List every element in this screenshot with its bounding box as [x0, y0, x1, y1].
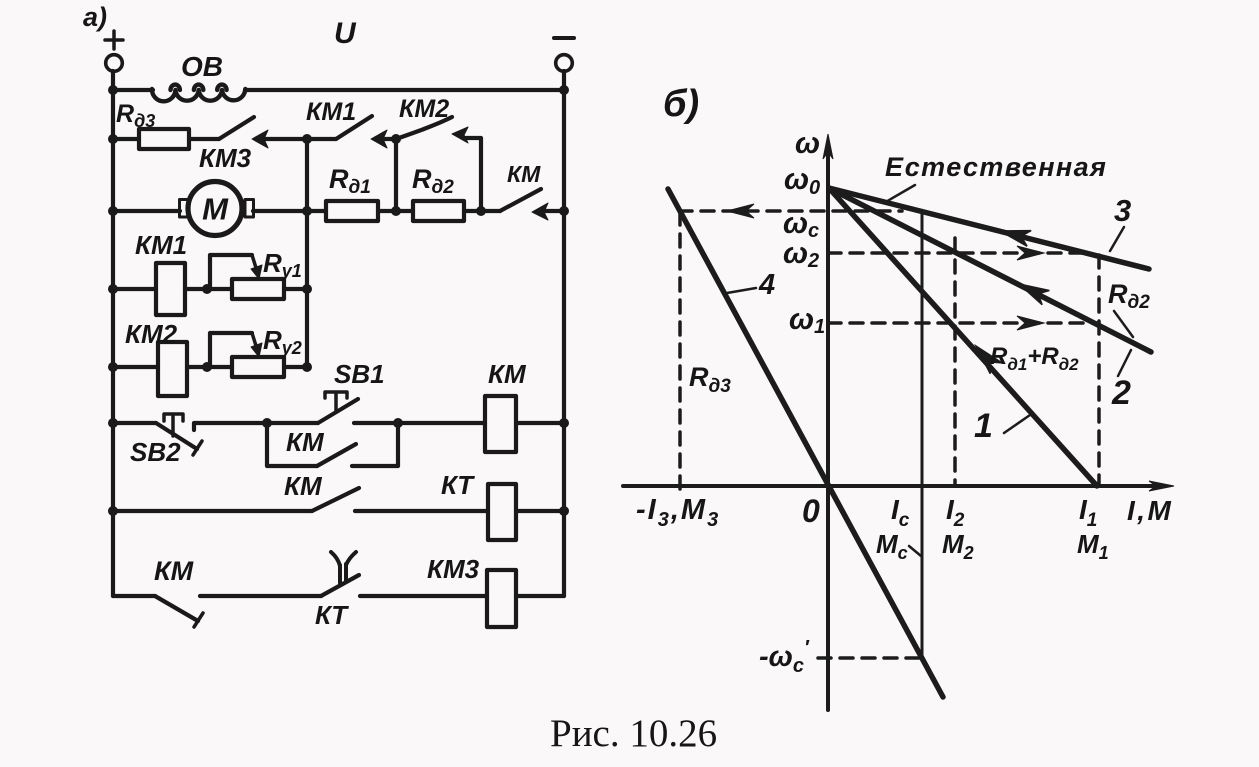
wire Rд2 to KM	[464, 209, 500, 213]
wire KM3 to node	[262, 137, 336, 141]
svg-text:М1: М1	[1077, 529, 1109, 563]
terminal circle right	[556, 55, 573, 72]
svg-text:КМ: КМ	[284, 471, 323, 501]
wire Rд3 to KM3	[189, 137, 219, 141]
wire row8 left	[113, 594, 155, 598]
wire coil KM to rail	[516, 421, 564, 425]
contact KT delay symbol	[331, 552, 356, 583]
characteristic line 2	[829, 188, 1151, 352]
resistor Ry1	[232, 279, 284, 299]
resistor Rд1	[326, 201, 378, 221]
wire KM to right rail	[545, 209, 564, 213]
right rail junction dots	[559, 85, 569, 216]
pushbutton SB2 actuator	[164, 414, 183, 436]
KM self-hold branch wire	[267, 423, 317, 466]
rheostat Ry1 tap arrow	[252, 255, 257, 271]
resistor Ry2	[232, 357, 284, 377]
contact KM blade (self-hold)	[317, 444, 356, 466]
node junction x481 motor row	[476, 206, 486, 216]
coil KM3	[487, 570, 516, 627]
svg-text:Rд3: Rд3	[116, 100, 155, 131]
vertical wire x307 (rows 2-5)	[305, 139, 309, 367]
wire coil KT to rail	[516, 509, 564, 513]
svg-text:3: 3	[1114, 193, 1131, 228]
characteristic line 4 (reverse braking)	[668, 189, 943, 697]
node junction x207 row5	[202, 362, 212, 372]
svg-text:ω0: ω0	[784, 163, 820, 199]
pointer from label Rд2	[1114, 311, 1133, 337]
I,M axis arrowhead	[1149, 481, 1174, 491]
rheostat Ry1 tap arrowhead	[251, 265, 262, 279]
arrow on omega-2 dashes (right)	[1017, 246, 1044, 260]
node junction x396 motor row	[391, 206, 401, 216]
node junction x307 row2	[302, 134, 312, 144]
svg-text:Rд1+Rд2: Rд1+Rд2	[990, 343, 1079, 374]
contact KM2 arrowhead	[452, 127, 468, 143]
svg-text:I2: I2	[946, 494, 965, 531]
svg-text:I,М: I,М	[1127, 495, 1173, 526]
pointer from label Mc	[909, 546, 921, 556]
wire row7 left	[113, 509, 312, 513]
svg-text:КТ: КТ	[315, 600, 349, 630]
omega axis arrowhead	[823, 134, 833, 159]
svg-text:КМ: КМ	[286, 427, 325, 457]
svg-text:ω: ω	[795, 127, 820, 160]
svg-text:КМ2: КМ2	[399, 95, 449, 123]
wire coil KM1 to Ry1	[185, 287, 232, 291]
contact KM1 arrowhead	[371, 130, 387, 148]
svg-text:М: М	[202, 192, 229, 227]
wire KM1 to node	[382, 137, 396, 141]
node junction rail row6	[559, 418, 569, 428]
pointer from label 1	[1004, 415, 1030, 433]
arrow on line 2	[1019, 284, 1049, 305]
svg-text:КМ: КМ	[488, 359, 527, 389]
contact KM blade (motor row)	[500, 189, 541, 211]
svg-text:ω2: ω2	[783, 237, 819, 272]
characteristic line 3 (natural)	[829, 188, 1149, 269]
terminal + (positive supply)	[105, 31, 123, 49]
svg-text:КМ2: КМ2	[125, 319, 178, 349]
svg-text:КМ1: КМ1	[135, 230, 187, 260]
svg-text:Rу2: Rу2	[263, 325, 302, 358]
wire row6 left	[113, 421, 156, 425]
node junction x307 motor row	[302, 206, 312, 216]
contact KM2 blade	[396, 117, 452, 139]
I,M axis (horizontal)	[623, 484, 1158, 488]
left rail junction dots	[108, 85, 118, 516]
rheostat Ry2 tap arrow	[252, 333, 257, 349]
dashed vertical I2	[953, 238, 957, 486]
coil KM1	[156, 263, 185, 315]
KM self-hold branch wire right	[352, 423, 398, 466]
pointer from label 3	[1110, 227, 1124, 251]
dashed level omega-c	[679, 209, 902, 213]
node junction x207 row4	[202, 284, 212, 294]
arrow on omega-c dashes (left)	[727, 204, 754, 218]
rheostat Ry2 bypass loop	[210, 333, 252, 367]
svg-text:-ωс′: -ωс′	[759, 637, 810, 677]
svg-text:Rд2: Rд2	[412, 164, 454, 198]
pointer to natural line	[884, 185, 915, 203]
wire coil KM3 to rail	[516, 594, 564, 598]
pushbutton SB2 blade	[156, 423, 197, 449]
contact KM3 arrowhead	[252, 130, 268, 148]
svg-text:ω1: ω1	[789, 303, 825, 338]
svg-text:КМ: КМ	[154, 556, 194, 586]
motor M left brush	[180, 200, 189, 218]
wire Ry1 to rail	[284, 287, 307, 291]
contact KM blade tick (row8)	[194, 613, 203, 627]
coil KT	[488, 484, 516, 540]
rheostat Ry1 bypass loop	[210, 255, 252, 289]
motor M armature circle	[188, 182, 242, 236]
dashed vertical -I3	[678, 212, 682, 490]
svg-text:ОВ: ОВ	[181, 51, 223, 82]
dashed level minus omega-c'	[818, 656, 922, 660]
pushbutton SB1 actuator	[325, 392, 347, 412]
wire KM to coil KT	[355, 509, 488, 513]
wire KM2 corner down	[465, 138, 481, 211]
vertical wire x396 (row2 to motor row)	[394, 139, 398, 211]
arrow on omega-1 dashes (right)	[1017, 316, 1044, 330]
svg-text:Rд1: Rд1	[329, 164, 371, 198]
node junction x398 row6	[393, 418, 403, 428]
wire row2 left	[113, 137, 139, 141]
svg-text:SB2: SB2	[130, 437, 181, 467]
contact KM3 blade	[219, 117, 254, 139]
wire KT to coil KM3	[360, 594, 487, 598]
dashed level omega-2	[828, 251, 1089, 255]
node junction x307 row4	[302, 284, 312, 294]
svg-text:КМ1: КМ1	[306, 98, 356, 126]
contact KM1 blade	[336, 116, 372, 139]
svg-text:U: U	[334, 17, 357, 50]
contact KM blade (row8)	[155, 596, 198, 621]
coil KM2	[158, 342, 187, 396]
right rail wire	[562, 71, 566, 596]
field winding OB	[152, 85, 245, 102]
svg-text:Rд2: Rд2	[1108, 279, 1150, 313]
wire motor to node	[253, 209, 326, 213]
wire row4 left	[113, 287, 156, 291]
arrow on line 1	[976, 346, 1002, 374]
svg-text:КМ3: КМ3	[427, 554, 480, 584]
resistor Rд2	[413, 201, 464, 221]
svg-text:КТ: КТ	[441, 470, 475, 500]
wire KM to KT contact	[200, 594, 321, 598]
svg-text:4: 4	[758, 269, 775, 301]
svg-text:Рис. 10.26: Рис. 10.26	[550, 712, 717, 755]
terminal circle left	[106, 55, 123, 72]
wire SB2 to SB1	[194, 423, 318, 430]
node junction rail row7	[559, 506, 569, 516]
node junction x307 row5	[302, 362, 312, 372]
coil KM	[485, 396, 516, 452]
svg-text:КМ: КМ	[507, 161, 541, 187]
svg-text:-I3,М3: -I3,М3	[636, 494, 720, 531]
pushbutton SB2 blade tick	[193, 441, 202, 455]
svg-text:Естественная: Естественная	[885, 152, 1107, 182]
svg-text:1: 1	[974, 407, 993, 445]
rheostat Ry2 tap arrowhead	[251, 343, 262, 357]
svg-text:I1: I1	[1079, 494, 1097, 531]
wire coil KM2 to Ry2	[187, 365, 232, 369]
omega axis (vertical)	[826, 142, 830, 710]
node junction x267 row6	[262, 418, 272, 428]
wire Rд1 to Rд2	[378, 209, 413, 213]
wire Ry2 to rail	[284, 365, 307, 369]
contact KT blade (time-delay)	[321, 575, 359, 596]
svg-text:2: 2	[1111, 374, 1131, 412]
minus terminal mark	[554, 36, 574, 40]
top bus wire	[113, 88, 564, 92]
contact KM arrowhead (motor row)	[532, 203, 548, 220]
contact KM blade (row7)	[312, 488, 359, 511]
svg-text:Мс: Мс	[876, 529, 908, 563]
load line Ic (solid thin)	[921, 212, 924, 658]
svg-text:М2: М2	[942, 529, 974, 563]
pointer from label 2	[1118, 350, 1131, 376]
resistor Rд3	[139, 129, 189, 149]
left rail wire	[111, 71, 115, 596]
pushbutton SB1 blade	[318, 399, 358, 423]
svg-text:Rд3: Rд3	[689, 362, 731, 397]
wire row5 left	[113, 365, 158, 369]
dashed vertical I1	[1097, 255, 1101, 486]
characteristic line 1	[829, 188, 1097, 486]
dashed level omega-1	[828, 321, 1099, 325]
svg-text:0: 0	[802, 493, 820, 529]
wire SB1 to coil KM	[354, 421, 485, 425]
node junction x396 row2	[391, 134, 401, 144]
svg-text:Iс: Iс	[891, 494, 910, 531]
wire motor row left	[113, 209, 180, 213]
svg-text:а): а)	[83, 2, 107, 32]
svg-text:SB1: SB1	[334, 359, 385, 389]
svg-text:б): б)	[663, 83, 699, 125]
motor M right brush	[245, 200, 254, 218]
pointer from label 4	[727, 288, 756, 293]
svg-text:КМ3: КМ3	[199, 143, 252, 173]
arrow on line 3	[1000, 231, 1031, 247]
svg-text:Rу1: Rу1	[263, 248, 302, 281]
